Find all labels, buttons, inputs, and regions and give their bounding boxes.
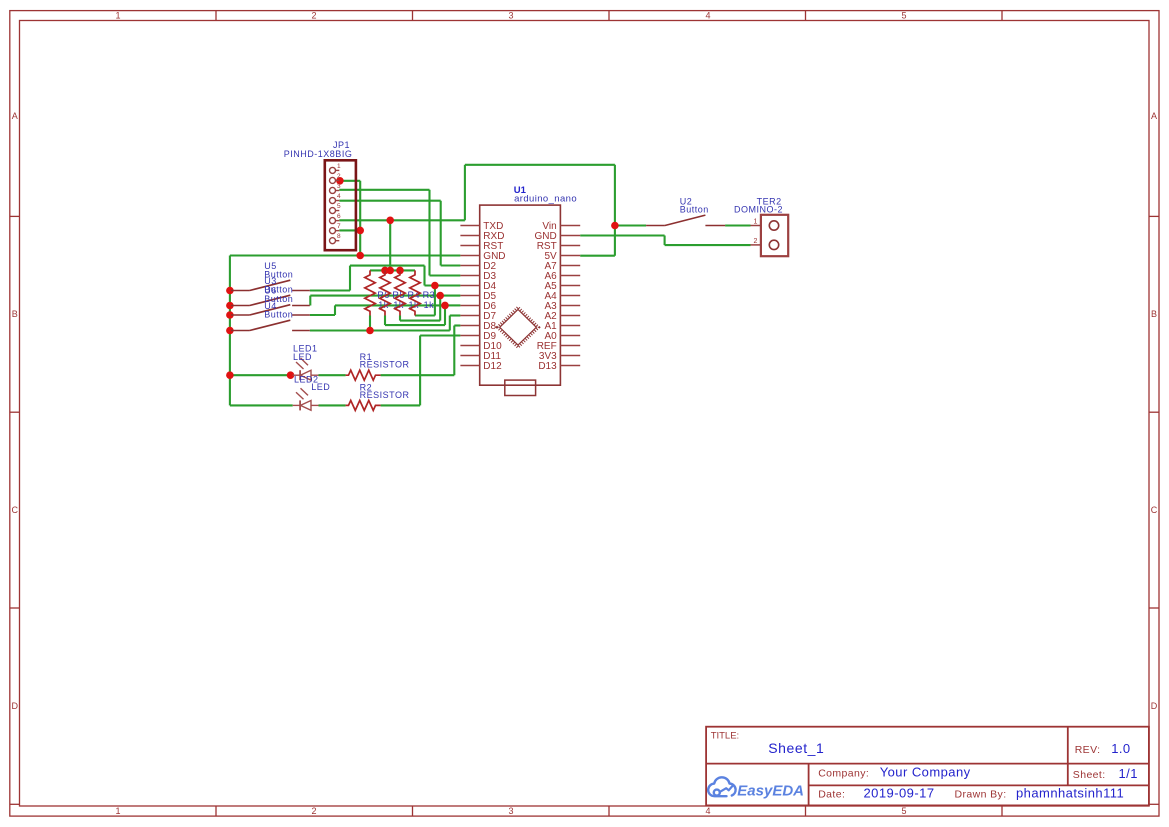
wire D7 net: into U1.D7 [450,314,461,316]
U1 left pin D5 [460,295,479,297]
wire D5 net: button U3 jog up [309,296,311,306]
U1 right pin Vin [560,225,580,227]
resistor R3 1k [410,270,420,315]
svg-text:Date:: Date: [818,789,845,801]
wire D3 net: vertical x=430 [428,190,430,276]
wire D9 net: R2 to x=420 [381,404,421,406]
wire D7 net: button U4 out [310,329,450,331]
wire D7 net: vertical x=450 up [449,316,451,331]
wire GND net: JP1.7 to vertical [339,229,360,231]
svg-text:PINHD-1X8BIG: PINHD-1X8BIG [284,149,353,159]
wire D2 net: into U1.D2 [441,264,461,266]
svg-text:Sheet:: Sheet: [1073,769,1106,781]
svg-text:D: D [11,701,18,711]
svg-text:Drawn By:: Drawn By: [955,789,1007,801]
U1 right pin 3V3 [560,355,580,357]
JP1 pin 7 [330,228,336,234]
svg-text:RESISTOR: RESISTOR [360,360,410,370]
wire D6 net: button U6 out [310,314,335,316]
svg-text:1.0: 1.0 [1111,741,1130,756]
svg-text:1: 1 [754,218,758,225]
wire D4 net: vertical x=350 up [349,266,351,291]
svg-text:LED: LED [311,382,330,392]
U1 right pin A5 [560,285,580,287]
svg-text:C: C [1151,505,1158,515]
pushbutton U5 [231,280,310,290]
svg-text:3: 3 [508,806,513,816]
svg-text:5: 5 [337,203,341,210]
wire D4 net: R3 bottom bracket [415,314,435,316]
wire D4 net: horizontal y=266 [350,265,425,267]
svg-text:arduino_nano: arduino_nano [514,194,577,205]
svg-text:4: 4 [705,11,710,21]
svg-text:1k: 1k [424,300,435,310]
wire D3 net: into U1.D3 [430,274,461,276]
svg-text:3: 3 [508,11,513,21]
wire D8 net: R1 to x=454 [381,374,455,376]
wire 5V net: vertical x=615 down [614,165,616,256]
wire D9 net: into U1.D9 [420,334,460,336]
svg-text:Company:: Company: [818,768,869,780]
U1 right pin RST [560,245,580,247]
wire D8 net: LED1 to R1 [319,374,346,376]
junction dots [226,177,619,379]
U1 right pin GND [560,235,580,237]
diode LED1 [293,358,319,380]
resistor R2 RESISTOR [346,400,381,410]
svg-text:B: B [1151,309,1157,319]
wire 5V net: top horizontal over U1 [465,164,615,166]
title block [706,727,1149,806]
U1 right pin A4 [560,295,580,297]
JP1 pin 6 [330,218,336,224]
wire D5 net: horizontal crossing resistors [310,295,440,297]
svg-text:D: D [1151,701,1158,711]
wire D9 net: rail to LED2 [230,404,293,406]
wire 5V net: JP1.6 to x=465 [339,219,465,221]
wire TER2.1 net: from U2 switch [725,224,750,226]
svg-text:2: 2 [311,11,316,21]
U1 left pin D9 [460,335,479,337]
svg-text:D12: D12 [483,361,502,372]
U1 right pin A6 [560,275,580,277]
svg-text:2019-09-17: 2019-09-17 [864,786,935,801]
wire 5V net: to U1.5V pin [580,255,615,257]
svg-text:C: C [11,505,18,515]
svg-text:2: 2 [311,806,316,816]
wire GND net: left rail vertical [229,256,231,406]
wire resistor top rail [370,269,415,271]
svg-text:Button: Button [680,205,709,215]
U1 chip glyph (QFP diamond) [497,307,539,347]
U1 right pin A0 [560,335,580,337]
U1 left pin D10 [460,345,479,347]
U1 right pin A7 [560,265,580,267]
JP1 pin 2 [330,177,336,183]
svg-text:EasyEDA: EasyEDA [737,782,804,799]
svg-text:5: 5 [901,806,906,816]
EasyEDA logo [708,777,735,796]
svg-text:1: 1 [115,806,120,816]
svg-text:A: A [1151,111,1157,121]
pushbutton U4 [231,320,310,330]
wire D9 net: LED2 to R2 [319,404,346,406]
U1 left pin RST [460,245,479,247]
pushbutton U6 [231,305,310,315]
U1 left pin D6 [460,305,479,307]
svg-text:1: 1 [337,163,341,170]
diode LED2 [293,388,319,410]
U1 left pin RXD [460,235,479,237]
wire D9 net: vertical x=420 up [419,336,421,406]
svg-text:phamnhatsinh111: phamnhatsinh111 [1016,786,1124,801]
U1 left pin D8 [460,325,479,327]
wire D6 net: into U1.D6 [445,304,460,306]
JP1 pin 1 [330,167,336,173]
svg-text:Button: Button [264,309,293,319]
wire D4 net: vertical x=424.5 down [423,266,425,286]
U1 right pin D13 [560,365,580,367]
U1 left pin TXD [460,225,479,227]
wire D8 net: into U1.D8 [454,324,460,326]
svg-text:RESISTOR: RESISTOR [360,390,410,400]
U1 right pin A3 [560,305,580,307]
wire GND net: horizontal to U1.GND [230,254,461,256]
svg-text:REV:: REV: [1075,744,1101,756]
svg-text:R3: R3 [423,290,436,300]
wire D8 net: rail to LED1 [230,374,293,376]
wire D5 net: R4 bottom bracket [399,316,401,321]
JP1 pin 3 [330,187,336,193]
U1 left pin D2 [460,265,479,267]
svg-text:4: 4 [705,806,710,816]
wire D5 net: into U1.D5 [440,295,460,297]
connector JP1 PINHD-1X8BIG [325,160,356,250]
U1 right pin 5V [560,255,580,257]
U1 left pin D11 [460,355,479,357]
pushbutton U3 [231,295,310,305]
svg-text:2: 2 [754,238,758,245]
svg-text:LED: LED [293,352,312,362]
svg-text:6: 6 [337,213,341,220]
wire 5V net: vertical x=465 up [464,165,466,221]
JP1 pin 5 [330,208,336,214]
svg-text:3: 3 [337,183,341,190]
U1 usb connector rect [505,380,536,395]
svg-text:4: 4 [337,193,341,200]
svg-text:B: B [12,309,18,319]
JP1 pin 4 [330,198,336,204]
U1 right pin A1 [560,325,580,327]
svg-text:Sheet_1: Sheet_1 [768,740,824,756]
wire D6 net: horizontal crossing resistors [335,304,445,306]
svg-text:5: 5 [901,11,906,21]
svg-text:7: 7 [337,223,341,230]
resistor R4 1k [395,270,405,315]
wire GND net: JP1.2 to vertical [339,180,360,182]
ic U1 arduino_nano [480,205,561,385]
wire 5V net: junction to U2 switch [615,224,646,226]
svg-text:8: 8 [337,233,341,240]
terminal TER2 DOMINO-2 [751,215,789,256]
wire D2 net: vertical x=441 [440,201,442,266]
wire TER2.2 net: from U1.GND right [580,234,664,236]
wire D4 net: into U1.D4 [425,284,461,286]
wire D7 net: R6 bottom lead [369,316,371,331]
svg-text:1: 1 [115,11,120,21]
resistor R1 RESISTOR [346,370,381,380]
svg-text:D13: D13 [538,361,557,372]
U1 left pin GND [460,255,479,257]
JP1 pin 8 [330,238,336,244]
U1 left pin D4 [460,285,479,287]
svg-text:2: 2 [337,173,341,180]
U1 left pin D12 [460,365,479,367]
wire 5V net: drop to resistor top rail [389,220,391,270]
resistor R6 1k [365,270,375,315]
wire D8 net: vertical x=454 up [453,326,455,376]
U1 right pin A2 [560,315,580,317]
svg-text:TITLE:: TITLE: [711,730,740,741]
svg-text:1/1: 1/1 [1119,766,1138,781]
U1 left pin D3 [460,275,479,277]
svg-text:Your Company: Your Company [880,765,971,780]
resistor R5 1k [380,270,390,315]
U1 right pin REF [560,345,580,347]
wire D6 net: jog up x=335 [334,305,336,315]
wire D3 net: JP1.3 out [339,189,429,191]
svg-text:A: A [12,111,18,121]
wire D6 net: R5 bottom bracket [384,316,386,326]
wire D4 net: button U5 out [310,289,350,291]
wire D2 net: JP1.4 out [339,200,440,202]
wire GND net: vertical x=360 [359,181,361,256]
U1 left pin D7 [460,315,479,317]
svg-text:DOMINO-2: DOMINO-2 [734,205,783,215]
pushbutton U2 [646,215,725,225]
